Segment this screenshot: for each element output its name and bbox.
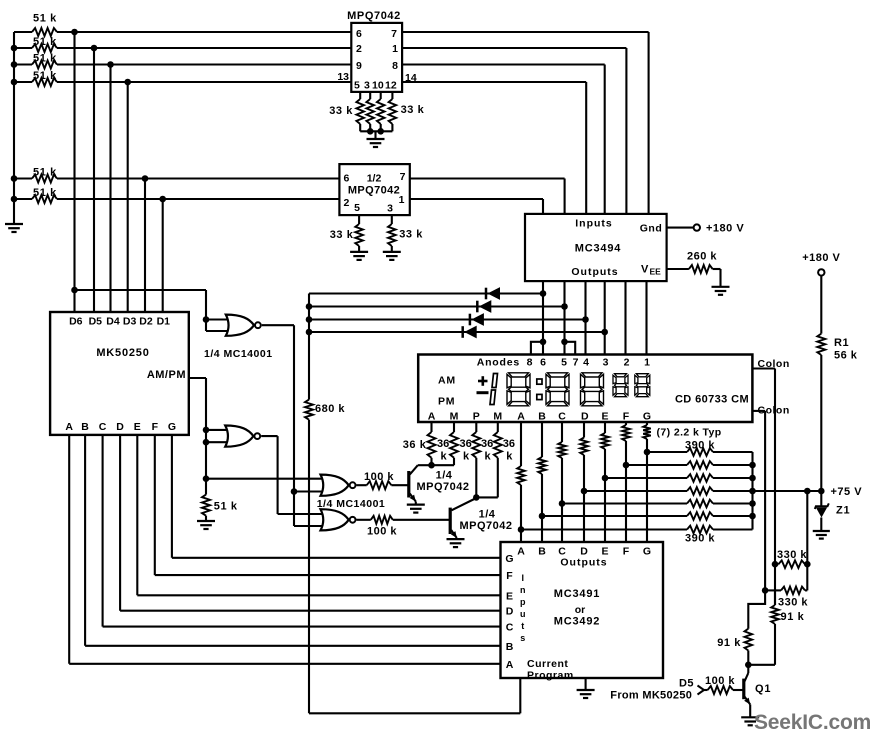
node D4 tap wire <box>109 65 111 314</box>
resistor 51 k (row 5) <box>14 177 32 179</box>
wire diode row 2 <box>309 305 565 307</box>
svg-text:1/4: 1/4 <box>436 470 453 482</box>
node D5 tap wire <box>93 48 95 313</box>
svg-text:6: 6 <box>344 173 350 185</box>
wire row 4 to MPQ7042 <box>57 81 351 83</box>
resistor 91 k (right) <box>774 590 776 605</box>
wire NOR1 out to G4 input <box>294 525 325 527</box>
resistor 33 k (pin 5) <box>358 215 360 224</box>
gate 1/4 MC14001 G1 <box>206 318 231 320</box>
diode D1 <box>485 288 488 300</box>
node D6 tap wire <box>73 32 75 313</box>
node D2 tap wire <box>144 179 146 314</box>
ground (51k) <box>205 516 207 521</box>
node Q1 collector <box>745 662 752 669</box>
resistor 260 k (VEE) <box>667 268 689 270</box>
svg-text:I: I <box>521 573 524 583</box>
svg-text:9: 9 <box>356 60 362 72</box>
wire MC3494 output 4 to anode 3 <box>604 281 606 354</box>
wire MC3494 output 1 to anode 6 <box>542 281 544 354</box>
transistor array MPQ7042 U1 <box>351 23 402 92</box>
resistor 36 k (pin P) <box>475 422 477 432</box>
svg-text:k: k <box>463 451 470 463</box>
wire Colon lower <box>752 410 765 412</box>
svg-text:8: 8 <box>527 357 533 369</box>
resistor 330 k (lower) <box>781 587 805 595</box>
wire anode 7 hook <box>565 342 576 355</box>
display plus sign <box>478 380 488 383</box>
svg-text:(7) 2.2 k Typ: (7) 2.2 k Typ <box>657 427 722 439</box>
wire cathode F to MC3491 <box>625 441 627 542</box>
svg-text:s: s <box>520 633 525 643</box>
wire 680k to MC3491 current program <box>308 420 310 714</box>
svg-text:F: F <box>506 570 513 582</box>
svg-text:or: or <box>575 604 586 616</box>
wire diode row 4 <box>309 331 605 333</box>
svg-text:k: k <box>485 451 492 463</box>
wire row4 MPQ7042 pin14 to MC3494 <box>402 81 586 83</box>
svg-text:D2: D2 <box>139 316 153 328</box>
display colon <box>537 379 542 384</box>
svg-text:F: F <box>623 546 630 558</box>
display digit 8 (seconds tens) <box>615 374 627 377</box>
resistor 36 k (pin M2) <box>497 422 499 432</box>
IC MC3491 U5 <box>501 542 664 678</box>
svg-text:Outputs: Outputs <box>560 557 607 569</box>
display half digit 1 <box>492 374 498 388</box>
resistor 390 k (row 6) <box>626 464 687 466</box>
svg-text:36: 36 <box>503 438 515 450</box>
svg-text:C: C <box>99 421 107 433</box>
wire 33k common bus <box>360 130 392 132</box>
ground (MC3491) <box>585 678 587 690</box>
svg-text:B: B <box>81 421 89 433</box>
ground (pin5 33k) <box>350 251 368 253</box>
zener diode Z1 <box>820 491 822 506</box>
svg-text:330 k: 330 k <box>778 597 808 609</box>
ground (Q2 emitter) <box>415 502 417 505</box>
svg-text:5: 5 <box>354 202 360 214</box>
wire MK50250 C to MC3491 C <box>102 435 104 627</box>
svg-text:33 k: 33 k <box>330 229 354 241</box>
svg-text:5: 5 <box>561 357 567 369</box>
svg-text:MPQ7042: MPQ7042 <box>348 185 400 197</box>
svg-text:36: 36 <box>481 438 493 450</box>
resistor 51 k (row 3) <box>14 63 32 65</box>
svg-text:B: B <box>538 546 546 558</box>
display digit 8 (minutes units) <box>582 373 602 377</box>
resistor 2.2 k (cathode C) <box>561 422 563 442</box>
ground (Q3 emitter) <box>456 537 458 540</box>
wire AM/PM to NOR2 <box>189 377 206 379</box>
wire diode row 3 <box>309 318 586 320</box>
resistor 390 k (row 5) <box>605 477 687 479</box>
svg-text:SeekIC.com: SeekIC.com <box>754 711 871 734</box>
svg-text:AM/PM: AM/PM <box>147 369 186 381</box>
svg-text:56 k: 56 k <box>834 350 858 362</box>
svg-text:PM: PM <box>438 396 455 408</box>
wire MK50250 B to MC3491 B <box>84 435 86 646</box>
resistor 33 k (MPQ7042 pin 5) <box>359 92 361 99</box>
resistor 2.2 k (cathode D) <box>583 422 585 438</box>
svg-text:100 k: 100 k <box>705 675 735 687</box>
svg-text:MC3492: MC3492 <box>554 616 600 628</box>
svg-text:51 k: 51 k <box>33 187 57 199</box>
svg-text:Current: Current <box>527 658 568 670</box>
wire cathode A to MC3491 <box>520 485 522 542</box>
diode D2 <box>476 301 479 313</box>
gate 1/4 MC14001 G4 <box>321 509 349 530</box>
wire row1 MPQ7042 pin7 to MC3494 <box>402 31 648 33</box>
wire MK50250 E to MC3491 E <box>136 435 138 595</box>
diode D4 <box>461 326 464 338</box>
svg-text:1/4 MC14001: 1/4 MC14001 <box>204 348 273 360</box>
wire row 1 to MPQ7042 <box>57 31 351 33</box>
svg-text:A: A <box>506 659 514 671</box>
svg-text:Inputs: Inputs <box>575 218 613 230</box>
resistor 330 k (upper) <box>778 560 805 568</box>
svg-text:EE: EE <box>650 267 662 277</box>
svg-text:n: n <box>520 585 526 595</box>
ground (MPQ7042 33k) <box>374 131 376 139</box>
svg-text:+180 V: +180 V <box>802 252 840 264</box>
svg-text:2: 2 <box>344 197 350 209</box>
svg-text:330 k: 330 k <box>777 549 807 561</box>
wire to G3 input <box>206 478 325 480</box>
svg-text:D: D <box>506 606 514 618</box>
resistor 33 k (MPQ7042 pin 12) <box>391 92 393 99</box>
svg-text:3: 3 <box>364 80 370 92</box>
svg-text:1/4 MC14001: 1/4 MC14001 <box>317 498 386 510</box>
wire row6 pin1 to MC3494 <box>410 198 543 200</box>
svg-text:7: 7 <box>573 357 579 369</box>
wire NOR2 output <box>261 435 277 437</box>
svg-text:36: 36 <box>437 438 449 450</box>
svg-text:MC3491: MC3491 <box>554 588 600 600</box>
svg-text:F: F <box>152 421 159 433</box>
resistor 36 k (pin M) <box>453 422 455 432</box>
transistor 1/4 MPQ7042 Q2 <box>428 462 435 469</box>
display digit 8 (minutes tens) <box>548 373 568 377</box>
svg-text:390 k: 390 k <box>685 533 715 545</box>
wire left vertical bus (top group) <box>13 32 15 224</box>
resistor 2.2 k (cathode B) <box>541 422 543 457</box>
node D3 tap wire <box>127 82 129 313</box>
ground (Z1) <box>813 530 830 532</box>
display minus sign <box>477 391 489 394</box>
transistor array 1/2 MPQ7042 U2 <box>339 164 409 215</box>
svg-text:D5: D5 <box>679 678 694 690</box>
svg-text:A: A <box>65 421 73 433</box>
resistor 51 k (row 6) <box>14 198 32 200</box>
resistor 390 k (row 7) <box>647 451 687 453</box>
wire MC3494 output 2 to anode 5 <box>563 281 565 354</box>
svg-text:C: C <box>558 410 566 422</box>
svg-text:Program: Program <box>527 670 574 682</box>
svg-text:D4: D4 <box>106 316 120 328</box>
resistor 390 k (row 3) <box>562 502 687 504</box>
svg-text:51 k: 51 k <box>214 501 238 513</box>
display CD 60733 CM <box>418 355 752 423</box>
svg-text:10: 10 <box>372 80 384 92</box>
wire row 3 to MPQ7042 <box>57 63 351 65</box>
svg-text:MPQ7042: MPQ7042 <box>416 481 469 493</box>
svg-text:+75 V: +75 V <box>831 486 863 498</box>
svg-text:33 k: 33 k <box>399 229 423 241</box>
resistor 33 k (MPQ7042 pin 3) <box>369 92 371 99</box>
svg-text:+180 V: +180 V <box>706 223 744 235</box>
svg-text:4: 4 <box>583 357 589 369</box>
svg-text:390 k: 390 k <box>685 440 715 452</box>
svg-text:Q1: Q1 <box>755 683 771 695</box>
svg-text:B: B <box>506 641 514 653</box>
svg-text:E: E <box>601 410 608 422</box>
gate 1/4 MC14001 G2 <box>206 429 231 431</box>
svg-text:D5: D5 <box>89 316 103 328</box>
wire Colon upper <box>752 367 775 369</box>
terminal +180 V (R1) <box>818 269 824 275</box>
wire NOR2 out to G4 input <box>278 513 325 515</box>
svg-text:Z1: Z1 <box>836 505 850 517</box>
wire row 6 to 1/2 MPQ7042 <box>57 198 339 200</box>
svg-text:33 k: 33 k <box>401 104 425 116</box>
resistor 33 k (pin 3) <box>391 215 393 224</box>
svg-text:G: G <box>505 553 513 565</box>
svg-text:Anodes: Anodes <box>477 357 520 369</box>
resistor 100 k (G3) <box>357 484 367 486</box>
svg-text:91 k: 91 k <box>717 637 741 649</box>
svg-text:CD 60733 CM: CD 60733 CM <box>675 394 749 406</box>
wire D6 to NOR1 inputs <box>75 289 207 291</box>
wire cathode G to MC3491 <box>646 439 648 542</box>
svg-text:MPQ7042: MPQ7042 <box>459 520 512 532</box>
wire row5 pin7 to MC3494 <box>410 177 565 179</box>
display digit 8 (hours) <box>509 373 529 377</box>
svg-text:E: E <box>506 590 513 602</box>
resistor 36 k (pin A) <box>430 422 432 432</box>
svg-text:From MK50250: From MK50250 <box>610 690 692 702</box>
resistor 100 k (Q1 base) <box>708 686 733 694</box>
wire NOR1 out to G3 input <box>294 490 325 492</box>
resistor 680 k <box>305 400 313 420</box>
svg-text:680 k: 680 k <box>315 403 345 415</box>
svg-text:6: 6 <box>540 357 546 369</box>
svg-text:AM: AM <box>438 375 456 387</box>
svg-text:G: G <box>643 410 651 422</box>
resistor 51 k (row 2) <box>14 47 32 49</box>
wire row2 MPQ7042 pin1 to MC3494 <box>402 47 626 49</box>
resistor 2.2 k (cathode E) <box>604 422 606 433</box>
wire cathode E to MC3491 <box>604 449 606 542</box>
svg-text:D6: D6 <box>69 316 83 328</box>
svg-text:B: B <box>538 410 546 422</box>
svg-text:1: 1 <box>399 194 405 206</box>
svg-text:Outputs: Outputs <box>571 266 618 278</box>
svg-text:36: 36 <box>460 438 472 450</box>
svg-text:F: F <box>623 410 630 422</box>
svg-text:G: G <box>643 546 651 558</box>
IC MC3494 U3 <box>525 214 667 281</box>
resistor 2.2 k (cathode A) <box>520 422 522 466</box>
wire MC3494 output 3 to anode 4 <box>584 281 586 354</box>
wire row 5 to 1/2 MPQ7042 <box>57 177 339 179</box>
wire MK50250 A to MC3491 A <box>68 435 70 664</box>
svg-text:51 k: 51 k <box>33 70 57 82</box>
svg-text:5: 5 <box>354 80 360 92</box>
svg-text:D: D <box>116 421 124 433</box>
resistor 2.2 k (cathode G) <box>646 422 648 425</box>
ground (pin3 33k) <box>383 251 401 253</box>
transistor Q1 <box>747 665 749 673</box>
gate 1/4 MC14001 G3 <box>321 475 349 496</box>
terminal +180 V (Gnd pin) <box>667 227 694 229</box>
resistor 2.2 k (cathode F) <box>625 422 627 425</box>
wire MC3494 output 5 to anode 2 <box>624 281 626 354</box>
svg-text:A: A <box>517 410 525 422</box>
svg-text:E: E <box>134 421 141 433</box>
svg-text:MC3494: MC3494 <box>575 243 621 255</box>
svg-text:7: 7 <box>400 171 406 183</box>
svg-text:t: t <box>521 621 524 631</box>
svg-text:51 k: 51 k <box>33 167 57 179</box>
resistor 33 k (MPQ7042 pin 10) <box>380 92 382 99</box>
wire cathode D to MC3491 <box>583 455 585 542</box>
svg-text:1/2: 1/2 <box>367 173 382 185</box>
IC MK50250 U4 <box>50 312 189 435</box>
resistor 51 k (row 1) <box>14 31 32 33</box>
wire diode row 1 <box>309 292 543 294</box>
svg-text:p: p <box>520 597 526 607</box>
svg-text:MK50250: MK50250 <box>96 347 149 359</box>
svg-text:91 k: 91 k <box>781 611 805 623</box>
svg-text:D3: D3 <box>123 316 137 328</box>
svg-text:A: A <box>428 410 436 422</box>
svg-text:13: 13 <box>337 71 349 83</box>
resistor 51 k (row 4) <box>14 81 32 83</box>
svg-text:k: k <box>441 451 448 463</box>
svg-text:51 k: 51 k <box>33 36 57 48</box>
svg-text:3: 3 <box>387 203 393 215</box>
svg-text:Gnd: Gnd <box>640 223 663 235</box>
svg-text:2: 2 <box>624 357 630 369</box>
svg-text:MPQ7042: MPQ7042 <box>347 10 401 22</box>
wire AM/PM node down to 51k <box>205 447 207 495</box>
svg-text:D: D <box>581 410 589 422</box>
svg-text:51 k: 51 k <box>33 13 57 25</box>
svg-text:R1: R1 <box>834 337 849 349</box>
wire MK50250 F to MC3491 F <box>154 435 156 575</box>
svg-text:8: 8 <box>392 60 398 72</box>
wire row3 MPQ7042 pin8 to MC3494 <box>402 63 605 65</box>
ground (260k) <box>712 286 730 288</box>
wire anode 8 hook <box>531 342 543 355</box>
svg-text:A: A <box>517 546 525 558</box>
resistor 390 k (row 1) <box>521 528 687 530</box>
wire input arrow <box>698 686 705 695</box>
wire +75V row <box>753 490 822 492</box>
svg-text:33 k: 33 k <box>329 105 353 117</box>
display digit 8 (seconds units) <box>636 374 648 377</box>
svg-text:k: k <box>506 451 513 463</box>
svg-text:G: G <box>168 421 176 433</box>
resistor 51 k (AM/PM) <box>202 495 210 516</box>
svg-text:u: u <box>520 609 526 619</box>
wire cathode C to MC3491 <box>561 458 563 542</box>
wire 390k right bus <box>751 452 753 530</box>
svg-text:100 k: 100 k <box>364 471 394 483</box>
wire cathode B to MC3491 <box>541 474 543 542</box>
wire MK50250 D to MC3491 D <box>119 435 121 611</box>
node diode bus <box>308 294 310 400</box>
svg-text:2: 2 <box>356 43 362 55</box>
svg-text:C: C <box>506 622 514 634</box>
diode D3 <box>469 314 472 326</box>
resistor 91 k (left) <box>748 590 765 628</box>
wire +75V down to 330k <box>806 491 808 590</box>
resistor 390 k (row 4) <box>584 490 687 492</box>
wire row 2 to MPQ7042 <box>57 47 351 49</box>
svg-text:100 k: 100 k <box>367 526 397 538</box>
svg-text:M: M <box>450 410 459 422</box>
wire MK50250 G to MC3491 G <box>171 435 173 558</box>
svg-text:D1: D1 <box>157 316 171 328</box>
node D1 tap wire <box>162 199 164 313</box>
wire NOR1 output <box>262 324 294 326</box>
svg-text:V: V <box>641 264 649 276</box>
resistor 390 k (row 2) <box>542 515 687 517</box>
svg-text:12: 12 <box>385 80 397 92</box>
svg-text:M: M <box>493 410 502 422</box>
wire MC3494 output 6 to anode 1 <box>645 281 647 354</box>
svg-text:36 k: 36 k <box>403 439 427 451</box>
svg-text:1/4: 1/4 <box>479 509 496 521</box>
svg-text:P: P <box>473 410 480 422</box>
svg-text:1: 1 <box>392 43 398 55</box>
svg-text:3: 3 <box>603 357 609 369</box>
svg-text:7: 7 <box>391 28 397 40</box>
resistor 100 k (G4) <box>357 519 371 521</box>
ground (left bus) <box>5 223 23 225</box>
svg-text:51 k: 51 k <box>33 53 57 65</box>
svg-text:260 k: 260 k <box>687 251 717 263</box>
ground (Q1 emitter) <box>749 705 751 718</box>
svg-text:6: 6 <box>356 28 362 40</box>
resistor R1 56 k <box>820 276 822 334</box>
svg-text:1: 1 <box>644 357 650 369</box>
transistor 1/4 MPQ7042 Q3 <box>473 494 480 501</box>
